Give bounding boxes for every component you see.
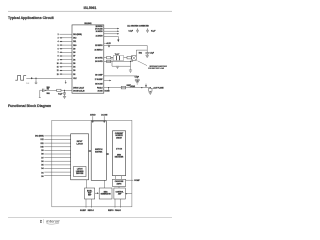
junction dots on IOUT wires xyxy=(111,57,112,58)
data input wires D13..D2 xyxy=(60,34,73,74)
REFIO wire to bypass cap xyxy=(104,46,147,53)
svg-text:16 DCOM: 16 DCOM xyxy=(95,84,103,86)
pin numbers left of data wires xyxy=(57,34,59,76)
svg-text:FSADJ: FSADJ xyxy=(115,209,121,212)
svg-text:REFLO: REFLO xyxy=(88,210,95,212)
svg-text:D8: D8 xyxy=(41,154,43,156)
input pin labels xyxy=(35,136,44,178)
ground rail under T1 xyxy=(112,58,131,66)
svg-text:CLK: CLK xyxy=(73,78,77,80)
svg-text:9: 9 xyxy=(58,59,59,61)
bottom ticks through edge xyxy=(85,199,87,208)
svg-text:D2: D2 xyxy=(73,74,75,76)
wire T1 to R3 xyxy=(124,57,127,59)
svg-text:ISL5961: ISL5961 xyxy=(84,23,91,25)
svg-text:8: 8 xyxy=(58,56,59,58)
svg-text:AVDD: AVDD xyxy=(90,114,96,117)
arrow bandgap to bias xyxy=(95,192,98,194)
svg-text:12: 12 xyxy=(57,70,59,72)
svg-text:0.1µF: 0.1µF xyxy=(129,30,133,32)
ACOM tick xyxy=(103,116,105,121)
FSADJ wire xyxy=(104,87,151,89)
svg-text:21 REFLO: 21 REFLO xyxy=(95,49,104,51)
svg-text:ISL5961: ISL5961 xyxy=(84,6,97,10)
svg-text:ACOM: ACOM xyxy=(101,114,107,117)
resistor R5 xyxy=(57,89,61,91)
ground below C6 xyxy=(63,96,66,98)
svg-text:50Ω: 50Ω xyxy=(139,52,143,54)
ground mark at bottom of L-wire xyxy=(39,96,41,98)
comp amp box xyxy=(113,179,126,186)
series capacitor C5 xyxy=(43,89,44,92)
svg-text:24 AVDD: 24 AVDD xyxy=(96,34,104,37)
decode sub-block xyxy=(74,167,87,177)
input data wires xyxy=(44,136,70,176)
resistor R3 xyxy=(127,57,131,59)
svg-text:D3: D3 xyxy=(73,70,75,72)
supply arrow symbol xyxy=(117,40,119,43)
resistor R4 xyxy=(121,86,126,89)
junction dot xyxy=(108,87,109,88)
arrowhead on clock wire xyxy=(31,77,33,79)
arrow switch matrix to current source xyxy=(106,153,108,155)
svg-text:18 COMP: 18 COMP xyxy=(95,75,103,77)
svg-text:+3.3V: +3.3V xyxy=(106,43,112,45)
down arrow symbol below CLK wire xyxy=(65,80,67,82)
arrow latch to switch matrix xyxy=(89,150,91,152)
transformer T1 xyxy=(113,56,123,61)
open terminal circle xyxy=(35,82,37,84)
outer boundary box xyxy=(52,120,132,207)
svg-text:MATRIX: MATRIX xyxy=(95,151,103,154)
COMP wire xyxy=(126,179,134,181)
wire control amp to edge xyxy=(125,193,132,195)
stub to clock connector xyxy=(35,78,37,82)
junction dot right xyxy=(150,87,151,88)
decoupling cap C2 with ground xyxy=(146,28,149,32)
svg-text:3: 3 xyxy=(58,38,59,40)
AVDD wire with supply arrow xyxy=(104,36,119,39)
+3.3V label DVDD pin xyxy=(104,42,105,44)
svg-text:+3.3V PLANE: +3.3V PLANE xyxy=(153,87,165,90)
svg-text:DCOM 6,15,28: DCOM 6,15,28 xyxy=(73,91,84,93)
svg-text:CLK: CLK xyxy=(26,83,30,85)
svg-text:D8: D8 xyxy=(73,52,75,54)
COMP bypass wire xyxy=(104,76,138,79)
supply stub arrow onto FSADJ wire xyxy=(145,84,147,86)
svg-text:FSADJ: FSADJ xyxy=(97,86,103,89)
footer rule xyxy=(8,216,172,218)
stub from output connector to cap node xyxy=(136,50,147,56)
svg-text:17 SLEEP: 17 SLEEP xyxy=(95,79,104,81)
svg-text:26 AVDD: 26 AVDD xyxy=(96,30,104,33)
IC U1 ISL5961 outline xyxy=(72,25,104,93)
shunt capacitor C6 xyxy=(63,90,66,96)
svg-text:D4: D4 xyxy=(73,66,75,69)
stub down from junction xyxy=(108,88,110,91)
ground G1 xyxy=(116,66,119,68)
svg-text:D9: D9 xyxy=(73,48,75,50)
tick latch to bandgap xyxy=(86,180,88,188)
svg-text:22 REFIO: 22 REFIO xyxy=(95,45,103,47)
svg-text:0.1µF: 0.1µF xyxy=(151,30,155,32)
svg-text:COMP: COMP xyxy=(134,180,140,182)
svg-text:D7: D7 xyxy=(41,157,43,159)
svg-text:D10: D10 xyxy=(73,45,76,47)
IOUTA wire xyxy=(104,57,107,59)
clock source square wave xyxy=(15,76,26,81)
wire R1 to T1 xyxy=(111,57,114,59)
bus entry ticks on data wires xyxy=(60,37,62,74)
svg-text:BAND-: BAND- xyxy=(87,190,93,193)
ground below R6 xyxy=(149,92,152,94)
svg-text:4: 4 xyxy=(58,40,59,43)
svg-text:1 TO 16: 1 TO 16 xyxy=(116,149,122,151)
svg-text:D13 (MSB): D13 (MSB) xyxy=(35,136,44,138)
svg-text:D5: D5 xyxy=(41,165,43,167)
footer separator xyxy=(43,219,45,223)
svg-text:ACOM: ACOM xyxy=(97,90,103,93)
ticks current source to comp box xyxy=(115,176,117,180)
wire into resistor xyxy=(44,89,57,91)
svg-text:LATCH: LATCH xyxy=(76,143,83,146)
svg-text:1.91kΩ: 1.91kΩ xyxy=(130,86,136,88)
IOUTB wire xyxy=(104,60,133,61)
SLEEP input network: L-wire xyxy=(40,90,43,97)
capacitor C4 xyxy=(135,79,140,81)
svg-text:0.1µF: 0.1µF xyxy=(150,52,154,54)
svg-text:BIAS: BIAS xyxy=(104,191,108,194)
svg-text:7: 7 xyxy=(58,52,59,54)
svg-text:AMPS: AMPS xyxy=(117,182,123,185)
svg-text:D12: D12 xyxy=(40,139,43,141)
svg-text:ARRAY: ARRAY xyxy=(116,136,123,139)
svg-text:D1: D1 xyxy=(41,173,43,175)
svg-text:D12: D12 xyxy=(73,38,76,40)
svg-text:REF: REF xyxy=(88,195,91,197)
tick comp box to control box xyxy=(118,187,120,189)
svg-text:5: 5 xyxy=(58,45,59,47)
junction dot xyxy=(126,193,127,194)
svg-text:50Ω: 50Ω xyxy=(47,87,51,89)
current source array block xyxy=(113,131,126,176)
switch matrix block xyxy=(91,121,106,180)
tick matrix to bias xyxy=(104,180,106,188)
svg-text:19 IOUTB: 19 IOUTB xyxy=(95,61,103,63)
svg-text:D4: D4 xyxy=(41,167,43,170)
output connector J1 xyxy=(132,56,137,61)
svg-text:D11: D11 xyxy=(41,143,44,145)
svg-text:D10: D10 xyxy=(40,147,43,149)
resistor R1 xyxy=(107,57,111,59)
svg-text:CONTROL: CONTROL xyxy=(116,192,124,194)
junction dot xyxy=(45,90,46,91)
svg-text:D11: D11 xyxy=(73,41,76,43)
svg-text:11: 11 xyxy=(57,67,59,69)
arrow below label xyxy=(108,44,110,47)
ground G2 xyxy=(129,70,132,72)
svg-text:6: 6 xyxy=(58,48,59,50)
AVDD tick xyxy=(92,116,94,121)
junction on clock wire xyxy=(35,78,36,79)
top-right power stub wires xyxy=(104,29,119,34)
svg-text:Functional Block Diagram: Functional Block Diagram xyxy=(8,104,51,108)
svg-text:D7: D7 xyxy=(73,56,75,58)
svg-text:Typical Applications Circuit: Typical Applications Circuit xyxy=(8,16,55,20)
svg-text:0.1µF: 0.1µF xyxy=(135,77,139,79)
svg-text:SLEEP: SLEEP xyxy=(80,210,87,212)
ground below C4 xyxy=(136,82,139,84)
svg-text:20 IOUTA: 20 IOUTA xyxy=(95,56,103,59)
svg-text:13: 13 xyxy=(57,74,59,76)
svg-text:DECODER: DECODER xyxy=(115,157,124,159)
svg-text:DECODE: DECODE xyxy=(76,173,84,175)
bandgap block xyxy=(85,188,95,199)
pin name labels inside IC, right column xyxy=(95,26,104,93)
svg-text:DVDD 5,16,27: DVDD 5,16,27 xyxy=(73,88,84,90)
svg-text:50Ω: 50Ω xyxy=(47,93,51,95)
bottom pin labels xyxy=(80,209,121,212)
svg-text:ALL GROUNDS CONNECTED: ALL GROUNDS CONNECTED xyxy=(127,25,149,28)
svg-text:10: 10 xyxy=(57,63,59,65)
input latch block xyxy=(71,134,89,180)
svg-text:D0: D0 xyxy=(41,176,43,178)
ground below C3 xyxy=(146,55,149,57)
SLEEP stub wire xyxy=(104,80,111,82)
pot R6 xyxy=(149,87,151,90)
junction dot xyxy=(64,90,65,91)
svg-text:D6: D6 xyxy=(41,161,43,163)
bias generator block xyxy=(99,188,112,199)
svg-text:DCOM: DCOM xyxy=(105,90,111,92)
svg-text:IMPEDANCE MATCHED: IMPEDANCE MATCHED xyxy=(150,65,168,68)
header rule xyxy=(8,10,172,12)
svg-text:intersil: intersil xyxy=(46,219,60,224)
arrowheads on power stubs xyxy=(117,28,119,30)
svg-text:REFIO: REFIO xyxy=(108,210,114,212)
resistor R2 xyxy=(107,60,111,62)
wire clock to CLK pin xyxy=(26,77,72,79)
svg-text:0.1µF: 0.1µF xyxy=(58,93,62,95)
pin name labels inside IC, left column xyxy=(73,34,84,93)
capacitor C3 xyxy=(145,53,149,56)
svg-text:D9: D9 xyxy=(41,150,43,152)
svg-text:2: 2 xyxy=(58,34,59,36)
svg-text:2: 2 xyxy=(40,219,42,223)
wire R5 to IC xyxy=(61,89,72,91)
svg-text:D6: D6 xyxy=(73,59,75,61)
control amp block xyxy=(114,188,125,199)
svg-text:D13 (MSB): D13 (MSB) xyxy=(73,34,82,36)
annotation leader line xyxy=(138,61,148,66)
svg-text:D5: D5 xyxy=(73,63,75,65)
